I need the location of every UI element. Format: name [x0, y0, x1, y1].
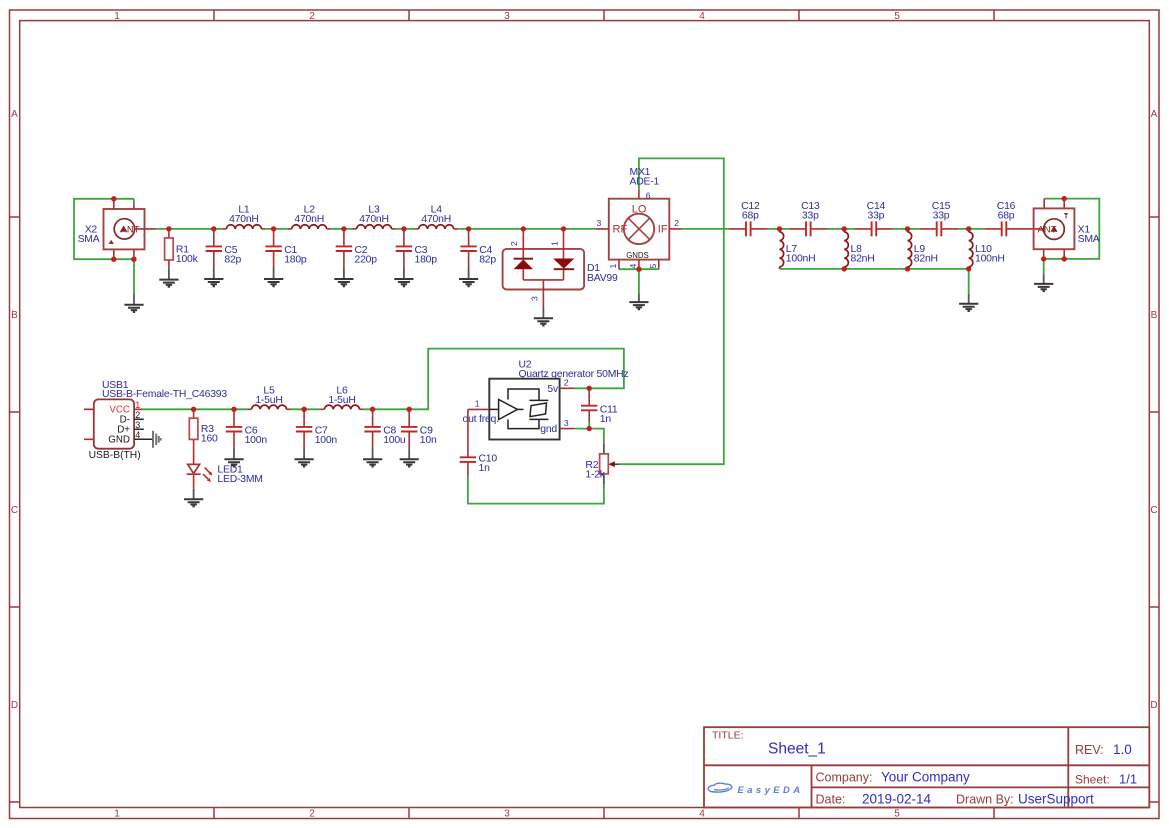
svg-text:ANT: ANT: [1038, 225, 1057, 236]
svg-text:Sheet_1: Sheet_1: [768, 741, 826, 758]
svg-text:D: D: [11, 700, 18, 711]
svg-text:EasyEDA: EasyEDA: [738, 785, 804, 796]
svg-text:1: 1: [608, 264, 618, 269]
svg-text:4: 4: [699, 11, 705, 22]
svg-text:USB-B(TH): USB-B(TH): [89, 450, 141, 461]
svg-text:ADE-1: ADE-1: [630, 176, 660, 187]
svg-text:GNDS: GNDS: [626, 251, 649, 260]
svg-text:Company:: Company:: [816, 771, 873, 785]
svg-text:1n: 1n: [479, 463, 491, 474]
svg-text:100u: 100u: [383, 435, 406, 446]
svg-text:SMA: SMA: [1078, 234, 1100, 245]
svg-text:RF: RF: [613, 224, 628, 236]
svg-text:TITLE:: TITLE:: [712, 730, 744, 742]
svg-text:220p: 220p: [355, 254, 378, 265]
svg-text:1n: 1n: [600, 414, 612, 425]
svg-text:1: 1: [475, 399, 480, 409]
svg-text:100nH: 100nH: [975, 254, 1005, 265]
svg-text:D: D: [1150, 700, 1157, 711]
svg-text:100k: 100k: [176, 254, 199, 265]
svg-text:2019-02-14: 2019-02-14: [862, 792, 932, 807]
svg-text:5: 5: [894, 11, 900, 22]
svg-text:5v: 5v: [547, 384, 559, 395]
svg-text:2: 2: [135, 410, 140, 420]
svg-text:ANT: ANT: [121, 224, 140, 235]
svg-text:3: 3: [564, 418, 569, 428]
svg-text:82nH: 82nH: [851, 254, 875, 265]
svg-text:100n: 100n: [245, 435, 268, 446]
svg-text:180p: 180p: [415, 254, 438, 265]
svg-text:33p: 33p: [933, 210, 950, 221]
svg-text:5: 5: [648, 264, 658, 269]
svg-text:3: 3: [504, 11, 510, 22]
svg-text:1.0: 1.0: [1113, 742, 1132, 757]
svg-text:2: 2: [674, 218, 679, 228]
svg-text:82p: 82p: [224, 254, 241, 265]
svg-text:100n: 100n: [315, 435, 338, 446]
svg-text:470nH: 470nH: [229, 214, 259, 225]
svg-text:82nH: 82nH: [914, 254, 938, 265]
svg-text:5: 5: [894, 808, 900, 819]
svg-text:1-2k: 1-2k: [585, 469, 605, 480]
svg-text:GND: GND: [108, 435, 130, 446]
svg-text:Your Company: Your Company: [881, 770, 970, 785]
svg-text:2: 2: [509, 241, 519, 246]
svg-text:3: 3: [504, 808, 510, 819]
svg-text:UserSupport: UserSupport: [1018, 792, 1094, 807]
svg-text:68p: 68p: [998, 210, 1015, 221]
svg-text:6: 6: [646, 190, 651, 200]
svg-text:Drawn By:: Drawn By:: [956, 793, 1014, 807]
svg-text:B: B: [11, 310, 18, 321]
svg-text:1: 1: [114, 11, 120, 22]
svg-text:LED-3MM: LED-3MM: [217, 474, 262, 485]
svg-text:SMA: SMA: [78, 234, 100, 245]
svg-text:10n: 10n: [420, 435, 437, 446]
svg-text:470nH: 470nH: [294, 214, 324, 225]
svg-text:82p: 82p: [479, 254, 496, 265]
svg-text:A: A: [1151, 109, 1158, 120]
svg-text:100nH: 100nH: [786, 254, 816, 265]
svg-text:REV:: REV:: [1075, 743, 1104, 757]
svg-text:2: 2: [309, 11, 315, 22]
svg-text:gnd: gnd: [540, 424, 557, 435]
svg-text:2: 2: [309, 808, 315, 819]
svg-text:4: 4: [135, 430, 140, 440]
svg-text:Date:: Date:: [816, 793, 846, 807]
svg-text:1-5uH: 1-5uH: [328, 395, 355, 406]
svg-text:33p: 33p: [868, 210, 885, 221]
svg-text:3: 3: [135, 420, 140, 430]
svg-text:USB-B-Female-TH_C46393: USB-B-Female-TH_C46393: [102, 389, 227, 400]
svg-text:3: 3: [597, 218, 602, 228]
svg-text:470nH: 470nH: [359, 214, 389, 225]
svg-text:A: A: [11, 109, 18, 120]
svg-text:LO: LO: [632, 204, 647, 216]
svg-text:68p: 68p: [742, 210, 759, 221]
svg-text:3: 3: [529, 296, 539, 301]
svg-text:BAV99: BAV99: [587, 273, 618, 284]
svg-text:1: 1: [549, 241, 559, 246]
svg-text:C: C: [1150, 505, 1157, 516]
svg-text:Sheet:: Sheet:: [1075, 773, 1110, 787]
svg-text:1: 1: [114, 808, 120, 819]
svg-text:B: B: [1151, 310, 1158, 321]
svg-text:4: 4: [628, 264, 638, 269]
svg-text:160: 160: [201, 433, 218, 444]
svg-text:2: 2: [564, 378, 569, 388]
svg-text:C: C: [11, 505, 18, 516]
svg-text:1-5uH: 1-5uH: [255, 395, 282, 406]
svg-text:180p: 180p: [284, 254, 307, 265]
svg-text:1/1: 1/1: [1119, 772, 1137, 787]
svg-text:33p: 33p: [802, 210, 819, 221]
svg-text:IF: IF: [658, 224, 668, 236]
svg-text:4: 4: [699, 808, 705, 819]
svg-text:470nH: 470nH: [421, 214, 451, 225]
